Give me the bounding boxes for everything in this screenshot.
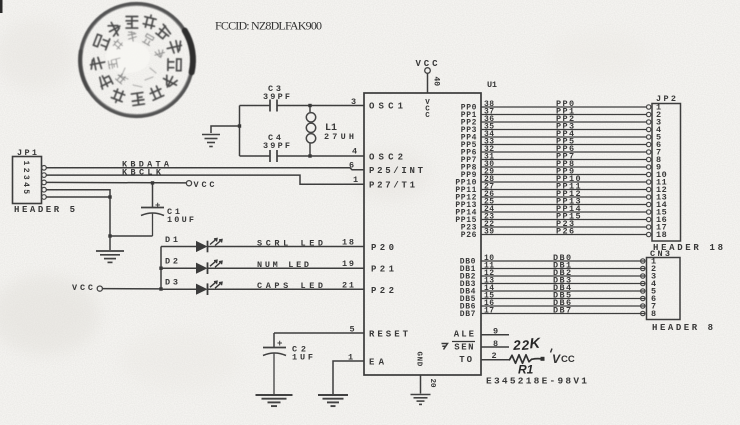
- wire PP12: [481, 196, 646, 198]
- svg-text:HEADER 18: HEADER 18: [653, 243, 723, 253]
- diode D2: [196, 260, 222, 274]
- wire D2 anode: [161, 267, 196, 269]
- JP2 pin contacts: [647, 105, 651, 237]
- svg-text:18: 18: [342, 238, 354, 248]
- wire PP5: [481, 144, 646, 146]
- ground EA: [318, 394, 348, 396]
- capacitor C3: [270, 100, 277, 112]
- wire EA row: [333, 361, 364, 394]
- wire P23: [481, 226, 646, 228]
- svg-text:R1: R1: [518, 363, 534, 377]
- wire PP13: [481, 204, 646, 206]
- wire C2 stem: [273, 333, 275, 347]
- svg-text:DB7: DB7: [460, 310, 476, 319]
- wire DB6: [481, 305, 645, 307]
- wire D1 anode: [161, 246, 196, 248]
- wire PP11: [481, 189, 646, 191]
- wire D3 cathode: [208, 288, 365, 290]
- svg-text:+: +: [155, 201, 160, 211]
- wire D2 cathode: [208, 267, 365, 269]
- svg-text:20: 20: [428, 379, 436, 389]
- svg-text:V: V: [552, 352, 561, 366]
- wire JP1 ground stem: [109, 236, 111, 250]
- svg-text:8: 8: [493, 339, 498, 349]
- wire OSC2 row: [240, 155, 271, 157]
- svg-text:TO: TO: [459, 355, 474, 365]
- svg-text:P26: P26: [461, 231, 477, 240]
- svg-text:5: 5: [350, 325, 355, 335]
- ground C2: [256, 394, 293, 396]
- diode D3: [196, 281, 222, 295]
- wire LED bus: [160, 247, 162, 290]
- svg-text:19: 19: [342, 259, 354, 269]
- wire DB7: [481, 313, 645, 315]
- node pin5 junction: [108, 195, 111, 198]
- svg-text:9: 9: [493, 327, 498, 337]
- node rail junction: [238, 124, 241, 127]
- svg-text:3: 3: [351, 97, 356, 107]
- wire crystal left rail: [239, 106, 241, 157]
- power VCC mid: [186, 181, 191, 186]
- wire PSEN stub: [481, 346, 509, 348]
- wire PP10: [481, 181, 646, 183]
- wire R1 to VCC: [532, 358, 542, 361]
- wire DB1: [481, 268, 645, 270]
- svg-text:JP1: JP1: [17, 148, 37, 158]
- wire JP1 pin4: [46, 190, 110, 236]
- inductor L1: [306, 106, 315, 157]
- connector CN3 body: [647, 258, 681, 320]
- wire VCC feed: [46, 181, 186, 184]
- wire P26: [481, 234, 646, 236]
- wire JP1 pin5: [46, 196, 110, 198]
- ground crystal: [202, 134, 220, 136]
- label 22K handwritten: [512, 336, 543, 354]
- wire RESET row: [274, 332, 364, 334]
- svg-text:VCC: VCC: [194, 180, 215, 190]
- svg-text:DB7: DB7: [553, 306, 573, 316]
- wire D3 anode: [161, 288, 196, 290]
- wire DB5: [481, 298, 645, 300]
- wire PP3: [481, 129, 646, 131]
- power VCC right: [551, 349, 575, 367]
- wire C1 bottom link: [110, 235, 153, 237]
- wire PP2: [481, 121, 646, 123]
- svg-text:P21: P21: [371, 265, 395, 275]
- wire ALE stub: [481, 334, 509, 336]
- svg-text:VCC: VCC: [72, 283, 93, 293]
- CN3 pin contacts: [641, 259, 645, 316]
- svg-text:21: 21: [342, 281, 354, 291]
- svg-text:17: 17: [484, 307, 494, 316]
- wire PP4: [481, 136, 646, 138]
- svg-text:FCCID: NZ8DLFAK900: FCCID: NZ8DLFAK900: [215, 19, 322, 33]
- svg-text:+: +: [277, 339, 282, 349]
- resistor R1: [510, 355, 532, 364]
- wire PP8: [481, 166, 646, 168]
- svg-text:39: 39: [484, 228, 494, 237]
- wire VCC to LED bus: [102, 288, 161, 290]
- microcontroller U1 body: [364, 93, 481, 375]
- wire C1 top branch: [152, 183, 154, 207]
- svg-text:12345: 12345: [21, 161, 30, 197]
- node VCC wire junction: [151, 181, 154, 184]
- node C1 branch: [108, 234, 111, 237]
- wire KBDATA: [46, 168, 364, 170]
- svg-text:U1: U1: [487, 80, 497, 90]
- wire PP0: [481, 106, 646, 108]
- power VCC top: [416, 59, 439, 73]
- power VCC left: [72, 283, 102, 293]
- svg-text:18: 18: [656, 230, 667, 240]
- wire PP7: [481, 159, 646, 161]
- svg-text:6: 6: [349, 161, 354, 171]
- pin name PSEN: [442, 342, 476, 353]
- svg-text:CC: CC: [561, 354, 575, 365]
- wire PP9: [481, 174, 646, 176]
- svg-text:40: 40: [432, 77, 441, 87]
- wire OSC1 row: [240, 105, 271, 107]
- node VCC terminal: [541, 357, 545, 361]
- svg-text:P20: P20: [371, 243, 394, 253]
- svg-text:1UF: 1UF: [292, 353, 313, 363]
- svg-text:1: 1: [353, 175, 358, 185]
- svg-text:P22: P22: [371, 286, 394, 296]
- node bus D2: [159, 267, 162, 270]
- wire PP6: [481, 151, 646, 153]
- svg-text:ALE: ALE: [454, 330, 476, 340]
- wire DB2: [481, 275, 645, 277]
- node L1 bottom: [308, 154, 311, 157]
- ground JP1: [96, 250, 124, 252]
- svg-text:SEN: SEN: [454, 343, 475, 353]
- capacitor C1: [141, 208, 164, 237]
- svg-text:VCC: VCC: [425, 99, 430, 120]
- wire D1 cathode: [208, 246, 365, 248]
- wire VCC to pin 40: [427, 73, 429, 93]
- JP1 pin contacts: [42, 166, 47, 200]
- wire DB0: [481, 260, 645, 262]
- wire PP1: [481, 114, 646, 116]
- diode D1: [196, 239, 222, 253]
- company seal stamp: [80, 4, 193, 117]
- wire GND stem: [420, 375, 422, 394]
- wire ground stub: [211, 126, 240, 133]
- node bus D3: [159, 287, 162, 290]
- capacitor C4: [270, 150, 277, 162]
- capacitor C2: [263, 348, 286, 395]
- svg-text:4: 4: [352, 147, 357, 157]
- wire PP15: [481, 219, 646, 221]
- svg-text:2: 2: [512, 338, 522, 354]
- wire TO stub: [481, 359, 510, 361]
- svg-text:8: 8: [651, 309, 657, 319]
- svg-text:GND: GND: [415, 352, 423, 367]
- node L1 top: [308, 104, 311, 107]
- wire KBCLK: [46, 175, 364, 184]
- wire DB3: [481, 283, 645, 285]
- svg-text:P26: P26: [556, 227, 576, 237]
- connector JP1 body: [13, 157, 42, 204]
- connector JP2 body: [652, 104, 681, 242]
- wire PP14: [481, 211, 646, 213]
- ground IC: [411, 394, 431, 396]
- wire DB4: [481, 290, 645, 292]
- svg-text:2: 2: [492, 351, 497, 361]
- svg-text:1: 1: [348, 353, 353, 363]
